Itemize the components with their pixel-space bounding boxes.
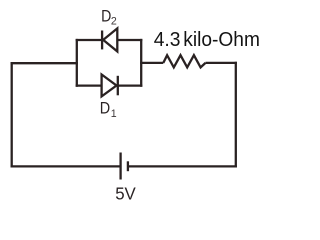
diode D1 triangle	[102, 75, 117, 97]
wire parallel-block left vertical	[76, 39, 78, 87]
battery V1 negative plate	[127, 161, 129, 171]
wire bottom branch left	[76, 84, 102, 86]
wire right vertical	[235, 62, 237, 168]
wire top branch left	[76, 39, 102, 41]
svg-text:4.3: 4.3	[154, 29, 181, 51]
svg-text:D: D	[100, 99, 110, 118]
resistor R1 zigzag	[163, 55, 205, 67]
wire bottom branch right	[118, 84, 143, 86]
diode D1 cathode bar	[117, 76, 119, 96]
battery V1 positive plate	[119, 153, 121, 180]
wire parallel-block right vertical	[140, 39, 142, 87]
wire mid-left horizontal	[11, 62, 78, 64]
wire top branch right	[117, 39, 142, 41]
diode D2 triangle	[103, 28, 117, 51]
svg-text:D: D	[101, 6, 111, 25]
svg-text:5V: 5V	[115, 184, 136, 204]
svg-text:2: 2	[111, 15, 117, 27]
wire bottom-left segment	[11, 165, 121, 167]
wire mid stub to resistor	[140, 62, 163, 64]
diode D2 cathode bar	[101, 31, 103, 50]
wire left vertical	[11, 62, 13, 167]
svg-text:kilo-Ohm: kilo-Ohm	[183, 29, 260, 51]
wire top-right horizontal	[206, 62, 237, 64]
svg-text:1: 1	[111, 108, 117, 120]
wire bottom-right segment	[128, 165, 237, 167]
